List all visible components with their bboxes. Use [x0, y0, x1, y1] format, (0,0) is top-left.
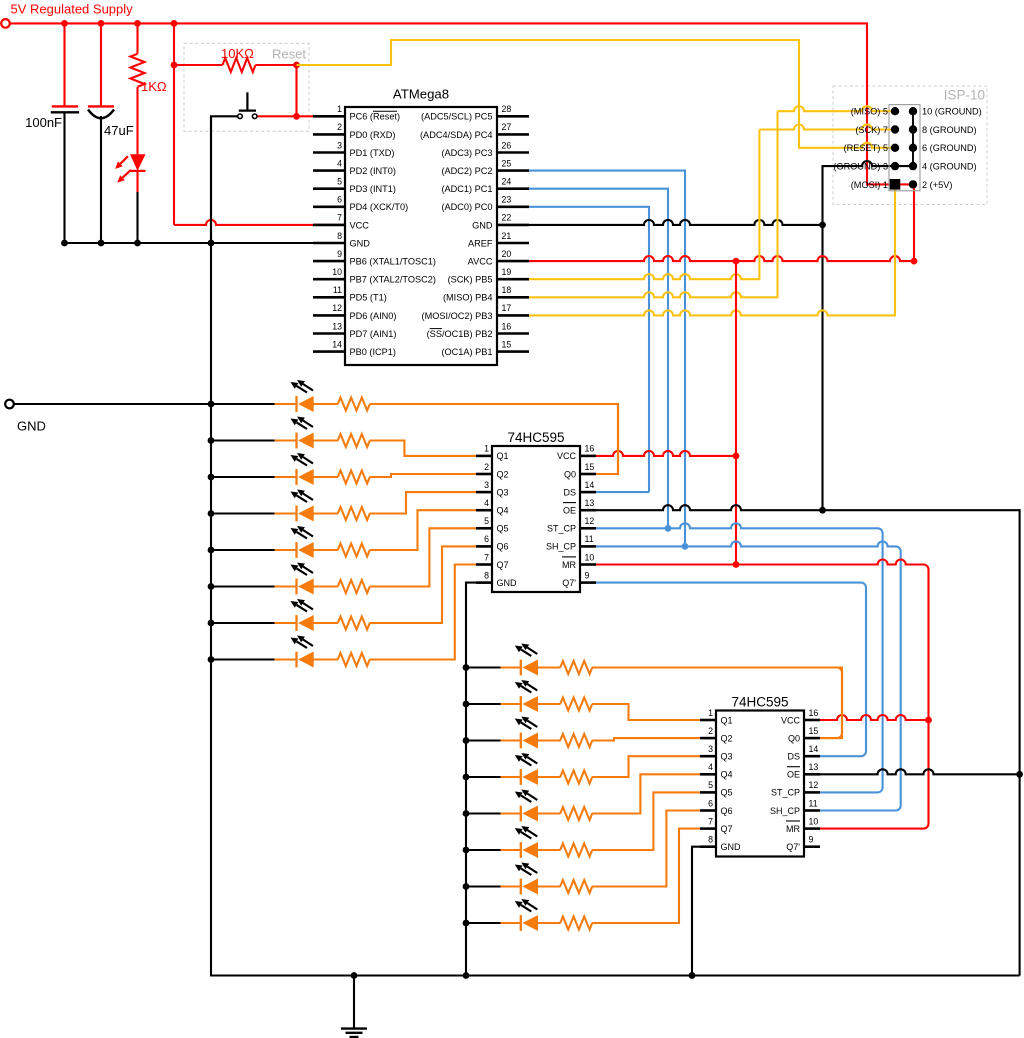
svg-text:2: 2	[337, 122, 342, 132]
svg-text:SH_CP: SH_CP	[770, 806, 800, 816]
junction mr-736	[733, 561, 740, 568]
resistor R7	[338, 544, 370, 557]
wire LED2-7 cathode	[466, 885, 501, 887]
junction bus1 row2	[208, 437, 215, 444]
svg-text:5: 5	[708, 780, 713, 790]
wire 47uF top	[100, 23, 102, 106]
wire LED7 to resistor	[313, 622, 338, 624]
svg-text:MR: MR	[562, 560, 576, 570]
wire LED2-5 cathode	[466, 812, 501, 814]
svg-text:GND: GND	[472, 220, 493, 230]
junction bus2 row3	[463, 737, 470, 744]
svg-text:Q1: Q1	[497, 451, 509, 461]
wire row5 to Q4	[370, 510, 476, 550]
svg-text:7: 7	[337, 213, 342, 223]
junction avcc-736	[733, 258, 740, 265]
wire row4 to Q3	[370, 492, 476, 513]
svg-text:19: 19	[502, 267, 512, 277]
svg-text:6: 6	[484, 534, 489, 544]
svg-text:2 (+5V): 2 (+5V)	[922, 180, 952, 190]
wire LED1 to resistor	[313, 403, 338, 405]
svg-text:Q3: Q3	[721, 752, 733, 762]
junction gnd-100nF	[61, 240, 68, 247]
junction bus1 row6	[208, 583, 215, 590]
svg-text:13: 13	[809, 762, 819, 772]
wire row7 to Q6	[370, 546, 476, 623]
svg-text:ISP-10: ISP-10	[944, 88, 985, 103]
resistor R10	[338, 653, 370, 666]
wire GND terminal to bus	[14, 403, 211, 405]
svg-text:1: 1	[337, 104, 342, 114]
resistor R13	[560, 734, 592, 747]
svg-text:(MOSI) 1: (MOSI) 1	[851, 180, 888, 190]
LED D10	[520, 660, 522, 676]
svg-text:(MISO) PB4: (MISO) PB4	[443, 293, 493, 303]
IC U2 74HC595	[492, 446, 580, 592]
reset circuit dashed box	[184, 43, 309, 131]
svg-text:GND: GND	[721, 842, 742, 852]
svg-text:GND: GND	[350, 238, 371, 248]
resistor R11	[560, 661, 592, 674]
wire U2 Q7S	[596, 583, 866, 757]
LED D14	[520, 806, 522, 822]
svg-text:15: 15	[585, 462, 595, 472]
svg-text:4: 4	[484, 498, 489, 508]
ISP pin1 square	[890, 179, 901, 190]
wire U2 Q0 up	[596, 404, 618, 474]
wire LED2-2 lead	[501, 703, 521, 705]
junction bus2 row6	[463, 847, 470, 854]
wire row1 to Q0	[370, 404, 618, 474]
wire LED2-2 cathode	[466, 703, 501, 705]
svg-text:16: 16	[502, 321, 512, 331]
wire LED2-2 to resistor	[537, 703, 560, 705]
svg-text:9: 9	[585, 570, 590, 580]
capacitor C1 100nF	[52, 105, 78, 107]
svg-text:OE: OE	[787, 770, 800, 780]
wire red 736 vertical	[735, 261, 737, 564]
wire GND rail left	[65, 242, 346, 244]
svg-text:(SCK) 7: (SCK) 7	[855, 125, 888, 135]
svg-text:26: 26	[502, 140, 512, 150]
wire row2 to Q1	[370, 441, 476, 456]
svg-text:(RESET) 5: (RESET) 5	[844, 143, 888, 153]
IC U1 pins and labels	[313, 115, 345, 118]
resistor R17	[560, 880, 592, 893]
svg-text:Q7': Q7'	[562, 578, 576, 588]
wire LED2-6 cathode	[466, 849, 501, 851]
resistor R6	[338, 507, 370, 520]
svg-text:15: 15	[502, 339, 512, 349]
svg-text:Q5: Q5	[721, 788, 733, 798]
wire LED2-1 lead	[501, 666, 521, 668]
svg-text:8: 8	[337, 231, 342, 241]
svg-text:(ADC4/SDA) PC4: (ADC4/SDA) PC4	[420, 130, 493, 140]
svg-text:(SS/OC1B) PB2: (SS/OC1B) PB2	[427, 329, 493, 339]
wire LED1 cathode	[211, 403, 275, 405]
wire row6 to Q5	[370, 528, 476, 586]
svg-text:8: 8	[708, 835, 713, 845]
junction gnd-47uF	[98, 240, 105, 247]
wire LED2-3 cathode	[466, 739, 501, 741]
resistor R12	[560, 698, 592, 711]
IC U3 74HC595	[716, 711, 804, 857]
junction bus2 row5	[463, 810, 470, 817]
svg-text:5V Regulated Supply: 5V Regulated Supply	[11, 2, 134, 17]
wire SCK yellow	[529, 130, 759, 280]
svg-text:22: 22	[502, 213, 512, 223]
junction bottom-bus2	[463, 972, 470, 979]
svg-text:18: 18	[502, 285, 512, 295]
svg-text:PD7 (AIN1): PD7 (AIN1)	[350, 329, 397, 339]
svg-text:(MOSI/OC2) PB3: (MOSI/OC2) PB3	[422, 311, 493, 321]
wire LED3 to resistor	[313, 476, 338, 478]
wire PC2 blue	[529, 171, 685, 547]
junction stcp-668	[665, 525, 672, 532]
junction reset-top	[293, 62, 300, 69]
junction 5V-47uF	[98, 20, 105, 27]
wire U2 SH_CP	[596, 541, 901, 810]
wire PC1 blue	[529, 189, 668, 529]
wire U2 GND	[466, 583, 492, 976]
svg-text:13: 13	[332, 321, 342, 331]
svg-text:(OC1A) PB1: (OC1A) PB1	[441, 347, 492, 357]
wire LED bottom black	[136, 192, 138, 243]
junction gnd-LED	[134, 240, 141, 247]
svg-text:47uF: 47uF	[104, 123, 134, 138]
svg-text:1: 1	[484, 444, 489, 454]
wire LED2-8 cathode	[466, 922, 501, 924]
svg-text:14: 14	[809, 744, 819, 754]
wire 2row7 to Q6	[592, 811, 700, 887]
svg-text:7: 7	[708, 816, 713, 826]
LED D13	[520, 769, 522, 785]
svg-text:VCC: VCC	[350, 220, 370, 230]
svg-text:Q7: Q7	[721, 824, 733, 834]
wire LED3 cathode	[211, 476, 275, 478]
svg-text:74HC595: 74HC595	[731, 694, 788, 709]
LED D16	[520, 879, 522, 895]
svg-text:10: 10	[809, 816, 819, 826]
wire LED2-7 to resistor	[537, 885, 560, 887]
junction bus1 row5	[208, 547, 215, 554]
wire U2 MR	[596, 560, 929, 829]
wire LED2-3 lead	[501, 739, 521, 741]
wire reset vertical	[295, 65, 297, 116]
svg-text:Q6: Q6	[721, 806, 733, 816]
svg-text:Q5: Q5	[497, 524, 509, 534]
LED D9	[295, 652, 297, 668]
junction bus2 row8	[463, 920, 470, 927]
svg-text:1: 1	[708, 708, 713, 718]
LED D12	[520, 733, 522, 749]
svg-text:16: 16	[809, 708, 819, 718]
junction oe-822	[819, 507, 826, 514]
wire LED1 lead	[275, 403, 297, 405]
svg-text:Q0: Q0	[788, 733, 800, 743]
wire U2 VCC	[596, 451, 736, 456]
svg-text:PB7 (XTAL2/TOSC2): PB7 (XTAL2/TOSC2)	[350, 275, 436, 285]
resistor R3	[338, 398, 370, 411]
svg-text:10: 10	[332, 267, 342, 277]
wire LED2-5 lead	[501, 812, 521, 814]
svg-text:AVCC: AVCC	[468, 257, 493, 267]
resistor R2 1K	[131, 54, 145, 87]
svg-text:Q2: Q2	[497, 469, 509, 479]
svg-text:74HC595: 74HC595	[507, 430, 564, 445]
svg-text:11: 11	[585, 534, 594, 544]
junction gnd-bus	[208, 240, 215, 247]
wire 47uF bottom	[100, 116, 102, 243]
wire LED2-4 cathode	[466, 776, 501, 778]
svg-text:SH_CP: SH_CP	[546, 542, 576, 552]
wire LED2-4 to resistor	[537, 776, 560, 778]
wire LED2-1 to resistor	[537, 666, 560, 668]
svg-text:9: 9	[337, 249, 342, 259]
wire LED2-8 to resistor	[537, 922, 560, 924]
svg-text:GND: GND	[497, 578, 518, 588]
junction VCC-10K	[171, 62, 178, 69]
junction bottom-692	[689, 972, 696, 979]
svg-text:24: 24	[502, 177, 512, 187]
LED D7	[295, 579, 297, 595]
wire LED4 to resistor	[313, 512, 338, 514]
junction vcc2-928	[925, 717, 932, 724]
IC U1 ATMega8 body	[345, 107, 497, 365]
svg-text:6: 6	[708, 798, 713, 808]
svg-text:GND: GND	[17, 419, 46, 434]
resistor R4	[338, 434, 370, 447]
svg-text:5: 5	[484, 516, 489, 526]
terminal 5V supply	[1, 19, 10, 28]
svg-text:11: 11	[333, 285, 342, 295]
svg-text:PD0 (RXD): PD0 (RXD)	[350, 130, 396, 140]
wire ISP ground column	[912, 111, 914, 166]
wire LED2 cathode	[211, 439, 275, 441]
wire LED5 lead	[275, 549, 297, 551]
svg-text:4 (GROUND): 4 (GROUND)	[922, 162, 977, 172]
svg-text:14: 14	[332, 339, 342, 349]
svg-text:VCC: VCC	[557, 451, 577, 461]
wire U3 Q0 up	[820, 668, 842, 739]
wire LED2-4 lead	[501, 776, 521, 778]
capacitor C2 47uF	[88, 105, 114, 107]
wire U3 GND	[692, 847, 716, 976]
svg-text:10 (GROUND): 10 (GROUND)	[922, 107, 982, 117]
svg-text:27: 27	[502, 122, 512, 132]
svg-text:(ADC2) PC2: (ADC2) PC2	[441, 166, 492, 176]
svg-text:4: 4	[708, 762, 713, 772]
junction bus1 row8	[208, 656, 215, 663]
junction bus1 row1	[208, 401, 215, 408]
wire LED4 lead	[275, 512, 297, 514]
svg-text:Reset: Reset	[272, 47, 306, 62]
svg-text:8 (GROUND): 8 (GROUND)	[922, 125, 977, 135]
svg-text:Q7: Q7	[497, 560, 509, 570]
wire LED5 to resistor	[313, 549, 338, 551]
junction bus2 row1	[463, 664, 470, 671]
svg-text:Q0: Q0	[564, 469, 576, 479]
wire LED8 lead	[275, 658, 297, 660]
junction bus1 row3	[208, 474, 215, 481]
svg-text:6 (GROUND): 6 (GROUND)	[922, 143, 977, 153]
wire U2 DS	[596, 491, 649, 493]
junction bus1 row4	[208, 510, 215, 517]
LED D2	[295, 396, 297, 412]
svg-text:10KΩ: 10KΩ	[221, 46, 254, 61]
junction 5V-VCC	[171, 20, 178, 27]
svg-text:12: 12	[809, 780, 819, 790]
svg-text:DS: DS	[787, 752, 800, 762]
wire LED8 to resistor	[313, 658, 338, 660]
svg-text:PD2 (INT0): PD2 (INT0)	[350, 166, 396, 176]
LED D6	[295, 542, 297, 558]
svg-text:PC6 (Reset): PC6 (Reset)	[350, 112, 401, 122]
junction bus1 row7	[208, 620, 215, 627]
svg-text:2: 2	[484, 462, 489, 472]
wire U2 ST_CP	[596, 523, 883, 792]
junction bus2 row4	[463, 774, 470, 781]
LED D5	[295, 506, 297, 522]
wire U2 OE	[596, 505, 1020, 975]
wire LED2-3 to resistor	[537, 739, 560, 741]
svg-text:9: 9	[809, 835, 814, 845]
svg-text:100nF: 100nF	[25, 115, 62, 130]
junction gnd-822	[819, 222, 826, 229]
svg-text:Q4: Q4	[721, 770, 733, 780]
wire LED2-6 lead	[501, 849, 521, 851]
wire 1K-LED	[136, 87, 138, 154]
wire MISO yellow	[529, 111, 778, 297]
resistor R14	[560, 771, 592, 784]
svg-text:20: 20	[502, 249, 512, 259]
svg-text:(MISO) 5: (MISO) 5	[851, 107, 888, 117]
wire LED7 cathode	[211, 622, 275, 624]
svg-text:23: 23	[502, 195, 512, 205]
svg-text:25: 25	[502, 158, 512, 168]
wire LED2-5 to resistor	[537, 812, 560, 814]
wire 5V rail	[10, 23, 913, 184]
svg-text:ATMega8: ATMega8	[393, 86, 449, 101]
resistor R1 10K	[223, 58, 256, 72]
svg-text:2: 2	[708, 726, 713, 736]
wire LED2-7 lead	[501, 885, 521, 887]
wire LED3 lead	[275, 476, 297, 478]
svg-text:Q1: Q1	[721, 715, 733, 725]
wire LED2-1 cathode	[466, 666, 501, 668]
wire 100nF bottom	[63, 112, 65, 243]
wire 1K top	[136, 23, 138, 53]
svg-text:AREF: AREF	[468, 238, 493, 248]
wire reset to pin1	[257, 115, 345, 117]
wire LED2-6 to resistor	[537, 849, 560, 851]
wire ground bus left	[211, 116, 1020, 975]
LED D11	[520, 696, 522, 712]
LED D8	[295, 615, 297, 631]
svg-text:Q2: Q2	[721, 733, 733, 743]
wire 100nF top	[63, 23, 65, 106]
wire MOSI yellow	[529, 184, 895, 315]
svg-text:4: 4	[337, 158, 342, 168]
svg-text:PD4 (XCK/T0): PD4 (XCK/T0)	[350, 202, 409, 212]
resistor R18	[560, 917, 592, 930]
wire LED6 cathode	[211, 585, 275, 587]
wire LED2 lead	[275, 439, 297, 441]
svg-text:DS: DS	[563, 487, 576, 497]
svg-text:PD3 (INT1): PD3 (INT1)	[350, 184, 396, 194]
svg-text:3: 3	[337, 140, 342, 150]
wire 2row8 to Q7	[592, 829, 700, 923]
wire 2row3 to Q2	[592, 738, 700, 740]
resistor R5	[338, 471, 370, 484]
wire LED4 cathode	[211, 512, 275, 514]
ISP-10 dashed box	[833, 86, 987, 205]
resistor R9	[338, 617, 370, 630]
junction shcp-685	[682, 543, 689, 550]
svg-text:1KΩ: 1KΩ	[141, 79, 167, 94]
svg-text:(GROUND) 3: (GROUND) 3	[833, 162, 888, 172]
wire VCC vertical	[173, 23, 175, 225]
terminal GND	[5, 400, 14, 409]
junction 5V-1K	[134, 20, 141, 27]
LED D4	[295, 469, 297, 485]
wire LED8 cathode	[211, 658, 275, 660]
LED D3	[295, 433, 297, 449]
junction 5V-100nF	[61, 20, 68, 27]
svg-text:17: 17	[502, 303, 512, 313]
junction bus2 row2	[463, 701, 470, 708]
junction avcc-914	[911, 258, 918, 265]
svg-text:13: 13	[585, 498, 595, 508]
svg-text:Q3: Q3	[497, 487, 509, 497]
svg-text:ST_CP: ST_CP	[547, 524, 576, 534]
svg-text:PD5 (T1): PD5 (T1)	[350, 293, 387, 303]
svg-text:OE: OE	[563, 506, 576, 516]
svg-text:3: 3	[708, 744, 713, 754]
svg-text:5: 5	[337, 177, 342, 187]
junction bottom-gndsym	[351, 972, 358, 979]
resistor R16	[560, 844, 592, 857]
svg-text:PD6 (AIN0): PD6 (AIN0)	[350, 311, 397, 321]
wire ISP5V vertical	[913, 184, 915, 261]
wire ISP MISO row	[778, 106, 896, 111]
wire LED bottom red	[136, 171, 138, 192]
svg-text:PB0 (ICP1): PB0 (ICP1)	[350, 347, 396, 357]
wire 10K lead right	[255, 64, 296, 66]
svg-text:(ADC1) PC1: (ADC1) PC1	[441, 184, 492, 194]
svg-text:PD1 (TXD): PD1 (TXD)	[350, 148, 395, 158]
wire VCC to pin7	[174, 220, 345, 225]
wire U3 OE	[820, 769, 1020, 774]
svg-text:(ADC3) PC3: (ADC3) PC3	[441, 148, 492, 158]
svg-text:Q6: Q6	[497, 542, 509, 552]
wire ATMega GND	[529, 220, 823, 225]
svg-text:16: 16	[585, 444, 595, 454]
wire LED7 lead	[275, 622, 297, 624]
svg-text:Q4: Q4	[497, 506, 509, 516]
LED D15	[520, 842, 522, 858]
svg-text:VCC: VCC	[781, 715, 801, 725]
wire PC0 blue	[529, 207, 649, 492]
pushbutton S1	[238, 114, 243, 119]
wire row1 to Q0 U3	[592, 668, 842, 739]
svg-text:Q7': Q7'	[786, 842, 800, 852]
wire LED6 to resistor	[313, 585, 338, 587]
svg-text:10: 10	[585, 552, 595, 562]
junction u2vcc-736	[733, 453, 740, 460]
ISP header box	[889, 105, 920, 191]
svg-text:3: 3	[484, 480, 489, 490]
